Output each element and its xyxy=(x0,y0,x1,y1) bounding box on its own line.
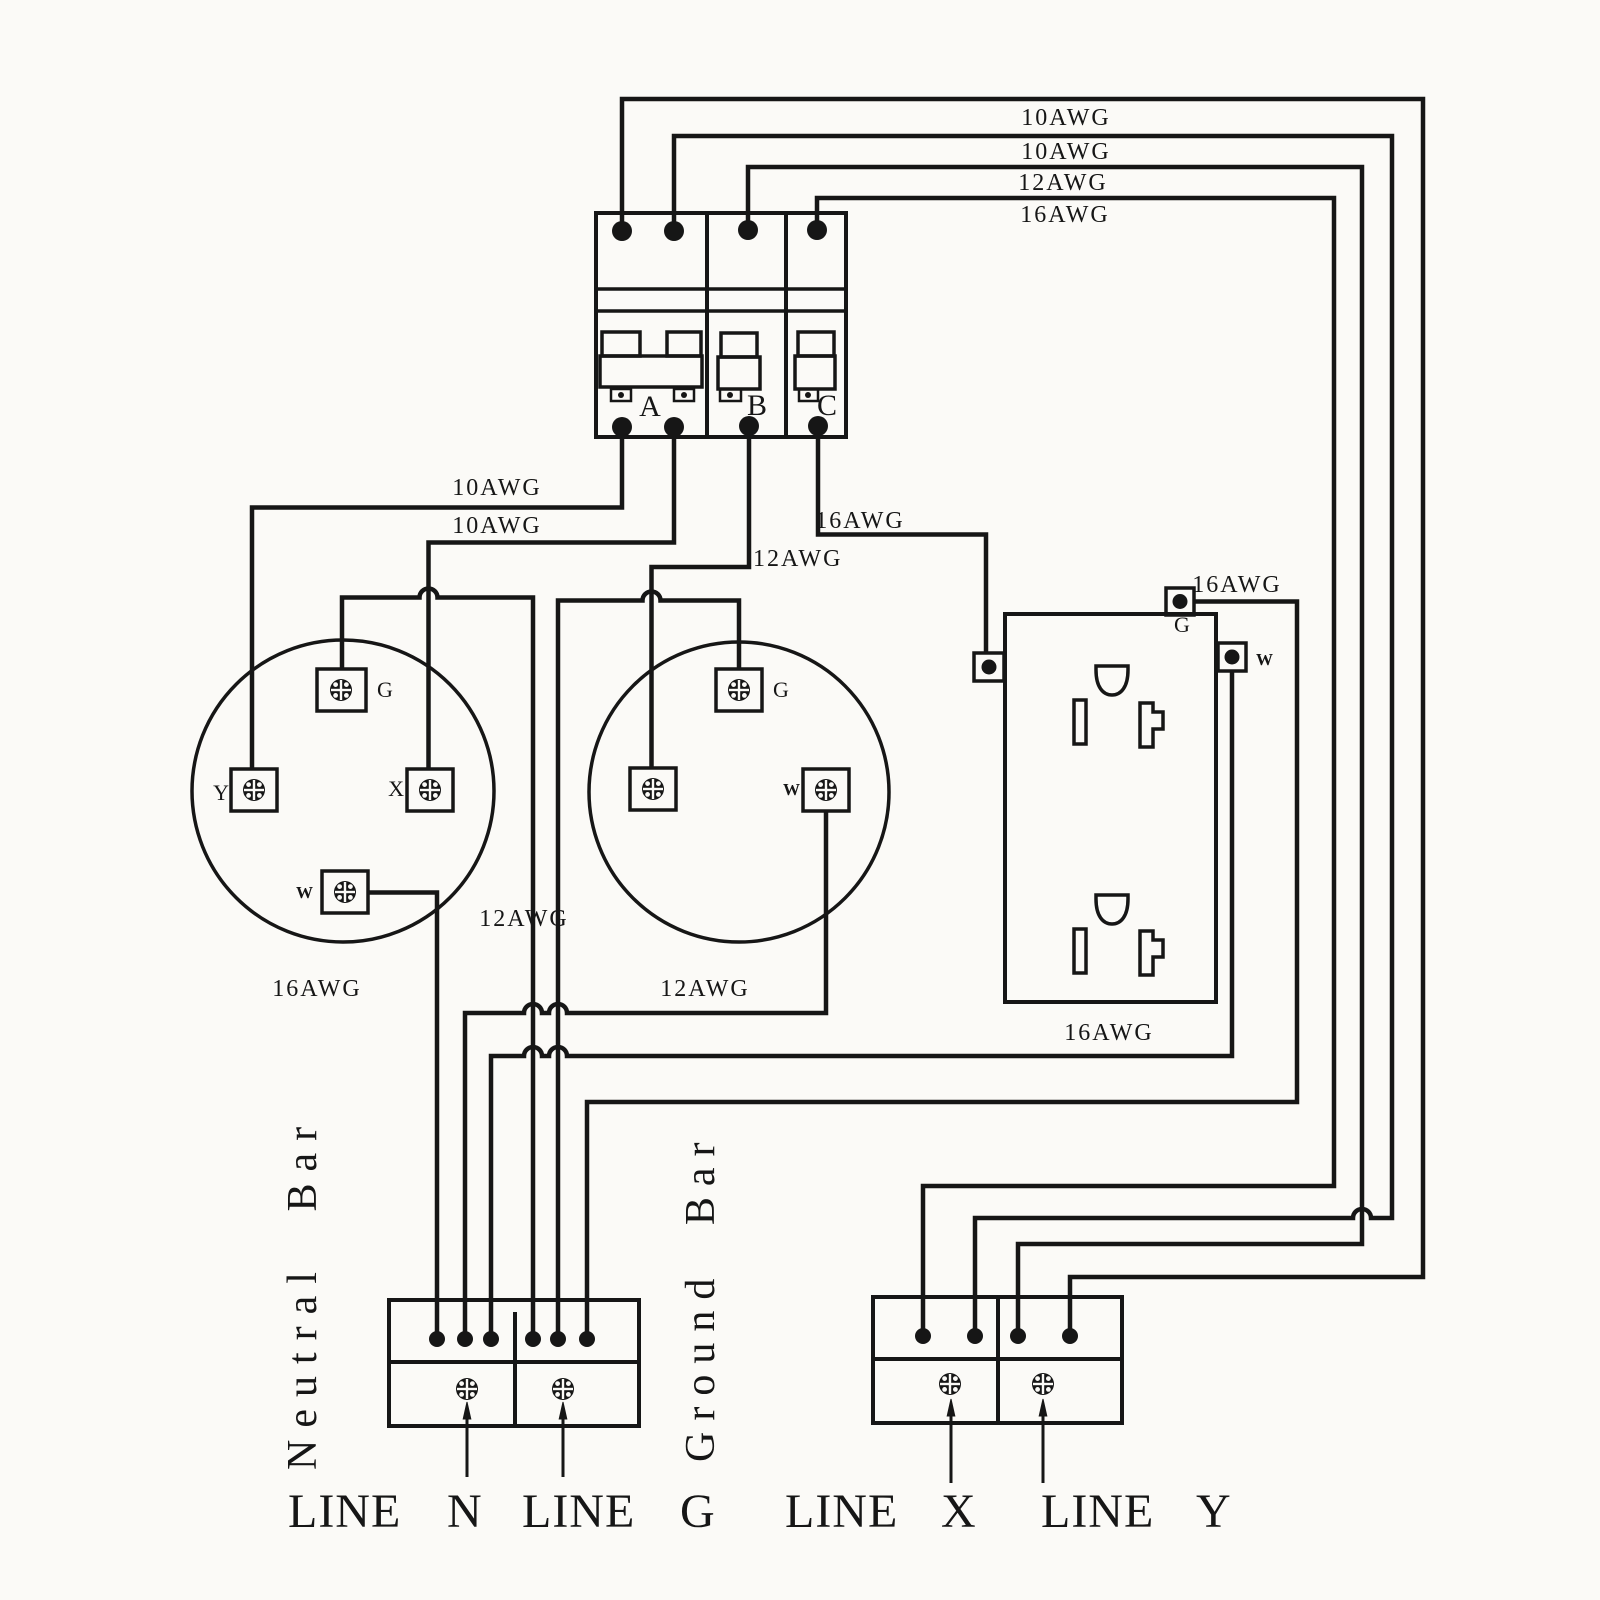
svg-text:Y: Y xyxy=(213,780,229,805)
svg-text:16AWG: 16AWG xyxy=(815,508,904,534)
svg-text:B: B xyxy=(747,389,767,422)
svg-text:X: X xyxy=(941,1485,977,1538)
svg-text:G: G xyxy=(773,677,789,702)
svg-text:16AWG: 16AWG xyxy=(272,976,361,1002)
svg-text:10AWG: 10AWG xyxy=(1021,139,1110,165)
svg-text:12AWG: 12AWG xyxy=(479,906,568,932)
svg-text:A: A xyxy=(639,390,661,423)
svg-text:10AWG: 10AWG xyxy=(1021,105,1110,131)
svg-text:C: C xyxy=(817,389,837,422)
svg-text:Neutral Bar: Neutral Bar xyxy=(280,1115,326,1470)
svg-text:X: X xyxy=(388,776,404,801)
svg-text:12AWG: 12AWG xyxy=(660,976,749,1002)
svg-text:Ground Bar: Ground Bar xyxy=(678,1132,724,1462)
svg-text:LINE: LINE xyxy=(288,1485,401,1538)
svg-text:G: G xyxy=(1174,612,1190,637)
svg-text:16AWG: 16AWG xyxy=(1192,572,1281,598)
svg-text:12AWG: 12AWG xyxy=(753,546,842,572)
svg-text:N: N xyxy=(447,1485,483,1538)
svg-text:W: W xyxy=(296,883,313,902)
svg-text:10AWG: 10AWG xyxy=(452,513,541,539)
svg-text:LINE: LINE xyxy=(522,1485,635,1538)
svg-text:16AWG: 16AWG xyxy=(1020,202,1109,228)
svg-text:Y: Y xyxy=(1196,1485,1232,1538)
svg-text:10AWG: 10AWG xyxy=(452,475,541,501)
svg-text:G: G xyxy=(377,677,393,702)
svg-text:G: G xyxy=(680,1485,716,1538)
svg-text:W: W xyxy=(783,780,800,799)
svg-text:LINE: LINE xyxy=(1041,1485,1154,1538)
svg-text:LINE: LINE xyxy=(785,1485,898,1538)
svg-text:W: W xyxy=(1256,650,1273,669)
svg-text:12AWG: 12AWG xyxy=(1018,170,1107,196)
svg-text:16AWG: 16AWG xyxy=(1064,1020,1153,1046)
